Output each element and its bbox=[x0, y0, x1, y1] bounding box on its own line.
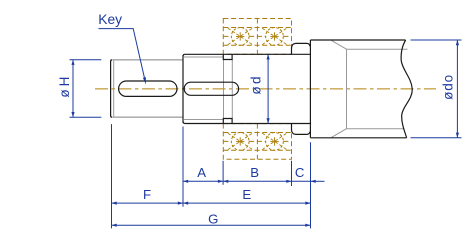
svg-text:øH: øH bbox=[57, 74, 72, 98]
svg-text:ødo: ødo bbox=[441, 74, 456, 100]
svg-text:C: C bbox=[295, 165, 305, 180]
svg-text:Key: Key bbox=[98, 12, 122, 27]
svg-text:G: G bbox=[208, 212, 218, 227]
svg-text:E: E bbox=[242, 187, 251, 202]
svg-text:ød: ød bbox=[249, 74, 264, 95]
svg-text:F: F bbox=[143, 187, 151, 202]
svg-text:B: B bbox=[250, 165, 259, 180]
svg-text:A: A bbox=[197, 165, 206, 180]
